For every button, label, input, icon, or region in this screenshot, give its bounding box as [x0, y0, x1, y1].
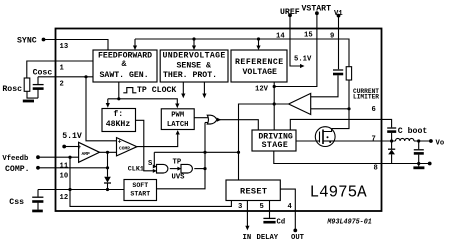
wire Cout stems	[418, 141, 420, 164]
svg-text:COMP.: COMP.	[5, 165, 30, 174]
svg-text:COMP: COMP	[119, 145, 130, 151]
boxes	[79, 50, 311, 201]
svg-text:UVS: UVS	[172, 174, 186, 182]
wire UV dangling arrow 2	[203, 82, 205, 95]
svg-text:PWM: PWM	[171, 112, 184, 120]
svg-text:13: 13	[60, 43, 69, 51]
svg-text:V1: V1	[334, 10, 343, 18]
ground bar osc	[23, 100, 34, 103]
terminal SYNC	[42, 38, 46, 42]
svg-text:START: START	[130, 190, 150, 197]
wire Rosc bottom	[27, 91, 38, 98]
wire OR top input	[194, 117, 208, 119]
MOSFET channel bar	[322, 130, 324, 145]
wire sawtooth down to COMP input	[86, 77, 117, 141]
svg-text:THER. PROT.: THER. PROT.	[163, 71, 217, 80]
svg-text:SYNC: SYNC	[17, 37, 37, 46]
svg-text:Cd: Cd	[277, 219, 286, 227]
resistor Rsense	[346, 67, 351, 80]
wire feedforward bottom drop	[118, 82, 120, 99]
terminal Vfeedb	[36, 155, 40, 159]
wire arrow drop into UNDERVOLTAGE	[193, 39, 195, 47]
node rail-UV	[192, 37, 195, 40]
MOSFET gate wire	[296, 140, 320, 142]
arrow gate2 input	[177, 167, 181, 171]
wire limiter output to reset vertical	[239, 104, 289, 180]
svg-text:10: 10	[60, 173, 69, 181]
capacitor Css top plate	[32, 196, 43, 198]
svg-text:AMP: AMP	[82, 151, 91, 157]
arrow pin3 IN down	[245, 226, 249, 231]
MOSFET body dots	[327, 136, 329, 138]
svg-text:4: 4	[288, 203, 293, 211]
arrow UV dangle 2	[202, 94, 206, 99]
node sense	[347, 107, 350, 110]
capacitor Cosc bottom plate	[33, 87, 44, 90]
svg-text:&: &	[122, 60, 127, 69]
capacitor Cd top plate	[263, 217, 275, 219]
wire arrow drop into REFERENCE	[258, 39, 260, 47]
block FEEDFORWARD SAWT GEN	[93, 50, 157, 82]
svg-text:LIMITER: LIMITER	[353, 93, 379, 100]
arrow into REFERENCE	[256, 46, 260, 51]
op-amp AMP triangle	[79, 142, 100, 162]
arrow OR output	[217, 118, 221, 122]
wire gnd stub	[418, 164, 420, 167]
MOSFET gate bar	[319, 132, 321, 143]
freewheel diode body	[388, 150, 395, 155]
svg-text:SENSE &: SENSE &	[177, 61, 211, 70]
arrow 5.1V right	[300, 64, 305, 68]
arrow into PWM top	[175, 104, 179, 109]
wire COMP out to PWM latch bottom	[137, 134, 178, 147]
svg-text:CLK1: CLK1	[128, 165, 144, 173]
svg-text:STAGE: STAGE	[262, 141, 289, 150]
ground bar Css	[32, 210, 43, 213]
arrow UV dangle 1	[181, 94, 185, 99]
wire OR output to driving stage	[220, 120, 259, 130]
node limiter out	[273, 102, 276, 105]
capacitor V1 sense top plate	[333, 69, 343, 71]
terminal 5.1V internal	[62, 145, 66, 149]
diode D1 body	[104, 177, 111, 183]
svg-text:TP: TP	[173, 158, 182, 166]
svg-text:12: 12	[60, 194, 69, 202]
capacitor Cosc top plate	[33, 84, 44, 86]
block REFERENCE VOLTAGE	[231, 50, 287, 82]
block f 48KHz	[102, 109, 136, 132]
wire OR gate lower input	[205, 122, 208, 124]
op-amp COMP triangle	[117, 138, 137, 156]
MOSFET circle	[315, 127, 335, 147]
wire driving stage bottom	[273, 150, 275, 152]
svg-text:VOLTAGE: VOLTAGE	[243, 68, 277, 77]
capacitor C boot top plate	[387, 127, 396, 129]
node Vo cap	[417, 139, 420, 142]
wire AMP out down through diode	[107, 152, 109, 177]
svg-text:48KHz: 48KHz	[106, 120, 131, 129]
wire pin1 to Rosc	[27, 61, 93, 78]
block UNDERVOLTAGE SENSE	[160, 50, 228, 82]
wire UREF pin 14 down and 5.1V arrow	[290, 15, 300, 66]
gate AND2 tp uvs	[181, 164, 192, 173]
terminal VSTART	[315, 11, 319, 15]
wire pin10 COMP	[38, 167, 108, 169]
node amp out	[106, 151, 109, 154]
wire Css stem	[37, 190, 39, 210]
terminal V1	[337, 14, 341, 18]
gate AND1 clk	[157, 164, 168, 173]
wire 5.1V to AMP plus	[64, 146, 78, 148]
op-amp current limiter triangle	[289, 93, 311, 114]
wire gate1 to gate2	[170, 168, 178, 170]
node gnd cap	[417, 162, 420, 165]
diode D1 cathode bar	[104, 182, 111, 184]
arrow gate1 input clk	[153, 169, 157, 173]
terminal dots	[36, 11, 433, 232]
resistor Rosc	[24, 78, 30, 91]
arrow into UNDERVOLTAGE	[192, 46, 196, 51]
capacitor C boot bottom plate	[387, 130, 396, 133]
wire 12V vertical to driving stage	[273, 82, 275, 130]
MOSFET source stub	[323, 140, 335, 142]
arrowheads	[106, 46, 305, 231]
svg-text:TP CLOCK: TP CLOCK	[137, 86, 176, 95]
wire SYNC to pin 13 into feedforward	[44, 40, 109, 51]
main IC box	[56, 29, 382, 212]
capacitor V1 sense bottom plate	[333, 73, 343, 76]
arrow into 48KHz	[106, 103, 110, 108]
wire diode stems	[391, 141, 393, 164]
svg-text:3: 3	[238, 203, 242, 211]
svg-text:5: 5	[260, 203, 264, 211]
wire cap bottom to limiter + input	[311, 75, 338, 97]
wire AMP out to COMP in	[100, 151, 117, 153]
terminal OUT	[293, 229, 297, 233]
svg-text:Vo: Vo	[436, 140, 445, 148]
wire VSTART rail y=39	[135, 39, 349, 67]
block RESET	[226, 180, 280, 201]
capacitor Css bottom plate	[32, 200, 43, 203]
svg-text:SAWT. GEN.: SAWT. GEN.	[100, 71, 149, 80]
svg-text:SOFT: SOFT	[132, 182, 148, 189]
wire pin3 in	[246, 201, 248, 227]
svg-text:DRIVING: DRIVING	[258, 132, 292, 141]
node css	[68, 188, 71, 191]
svg-text:Vfeedb: Vfeedb	[2, 155, 28, 163]
svg-text:S: S	[148, 160, 153, 168]
block PWM LATCH	[161, 109, 194, 130]
svg-text:7: 7	[372, 135, 376, 143]
node gate out	[203, 167, 206, 170]
svg-text:6: 6	[372, 106, 376, 114]
svg-text:Rosc: Rosc	[2, 85, 22, 94]
svg-text:f:: f:	[113, 109, 123, 119]
wire pin5 delay	[269, 201, 271, 219]
wire coil to Vo	[414, 140, 431, 142]
TP clock pulse glyph	[123, 88, 136, 93]
svg-text:L4975A: L4975A	[310, 184, 368, 203]
node 12V	[273, 85, 276, 88]
node cboot pin7	[390, 139, 393, 142]
terminal UREF	[288, 13, 292, 17]
svg-text:14: 14	[276, 32, 285, 40]
svg-text:IN: IN	[243, 234, 252, 242]
arrow gate1 input S	[153, 165, 157, 169]
MOSFET drain stub	[323, 129, 332, 132]
wire pin12 Css soft start line	[38, 189, 124, 191]
wire C boot to pin7 node	[391, 133, 393, 141]
wire VSTART pin15 down to 12V rail	[274, 13, 317, 86]
svg-text:15: 15	[304, 32, 313, 40]
arrow into FEEDFORWARD	[133, 46, 137, 51]
node S rail x205	[203, 151, 206, 154]
node tpclock	[117, 97, 120, 100]
wire gate2 out to x205	[194, 168, 205, 170]
block DRIVING STAGE	[252, 130, 296, 151]
wire pin6 bootstrap	[290, 119, 391, 130]
freewheel diode bar	[388, 148, 395, 150]
wire pin4 out	[280, 189, 295, 229]
node diode soft	[106, 188, 109, 191]
svg-text:VSTART: VSTART	[302, 5, 332, 14]
ground bar output	[413, 166, 424, 169]
node reset drop	[237, 151, 240, 154]
svg-text:2: 2	[60, 80, 64, 88]
svg-text:8: 8	[374, 165, 378, 173]
svg-text:1: 1	[60, 65, 65, 73]
svg-text:REFERENCE: REFERENCE	[235, 58, 284, 67]
svg-text:LATCH: LATCH	[167, 121, 189, 129]
wire UV dangling arrow 1	[182, 82, 184, 95]
wire horizontal S rail y=152.3	[154, 151, 238, 153]
node sawtooth	[84, 75, 87, 78]
wire pin2 sawtooth	[38, 76, 93, 78]
wire pin11 Vfeedb	[38, 156, 79, 158]
wire S drop into gate1	[153, 152, 155, 166]
terminal COMP	[36, 166, 40, 170]
gate OR pwm	[207, 115, 217, 124]
svg-text:UREF: UREF	[280, 8, 300, 17]
wire pin7 source out	[335, 140, 396, 142]
capacitor Cd bottom plate	[263, 221, 275, 224]
svg-text:UNDERVOLTAGE: UNDERVOLTAGE	[163, 52, 226, 61]
svg-text:Cosc: Cosc	[33, 68, 53, 77]
svg-text:5.1V: 5.1V	[294, 55, 312, 63]
wire arrow drop into FEEDFORWARD	[134, 39, 136, 47]
svg-text:OUT: OUT	[291, 234, 305, 242]
node vfeedb	[68, 156, 71, 159]
wire Rsense bottom to drain	[332, 80, 349, 129]
terminal Vo	[429, 139, 433, 143]
node comp pin10	[106, 166, 109, 169]
wire diode to soft line	[107, 183, 109, 190]
wire Vfeedb down to reset line	[70, 157, 231, 206]
svg-text:9: 9	[330, 32, 334, 40]
node rail-REF	[257, 37, 260, 40]
svg-text:+: +	[77, 144, 81, 151]
capacitor Cout top plate	[414, 149, 424, 151]
block SOFT START	[124, 180, 157, 201]
terminal gnd right	[428, 162, 432, 166]
wire CLK1 from 48KHz box	[136, 120, 154, 171]
capacitor Cout bottom plate	[414, 152, 424, 155]
svg-text:Css: Css	[9, 198, 24, 207]
svg-text:5.1V: 5.1V	[62, 132, 82, 141]
svg-text:DELAY: DELAY	[257, 234, 279, 242]
wire pin8 ground line	[274, 151, 430, 164]
svg-text:C boot: C boot	[398, 126, 428, 136]
wire V1 pin9 down to cap	[338, 16, 340, 70]
wire 48KHz arrow drop	[107, 99, 109, 104]
wire TP clock line	[108, 99, 178, 105]
wire vertical x=205 gate output to soft start	[157, 123, 206, 189]
wire limiter - input	[311, 108, 349, 110]
svg-text:+: +	[118, 139, 122, 146]
svg-text:RESET: RESET	[240, 186, 267, 196]
inductor L coil	[396, 138, 414, 141]
arrow into PWM bottom	[176, 130, 180, 134]
svg-text:12V: 12V	[255, 85, 269, 93]
wire Cosc stems	[37, 77, 39, 98]
svg-text:11: 11	[60, 162, 69, 170]
svg-text:M93L4975-01: M93L4975-01	[326, 218, 371, 226]
